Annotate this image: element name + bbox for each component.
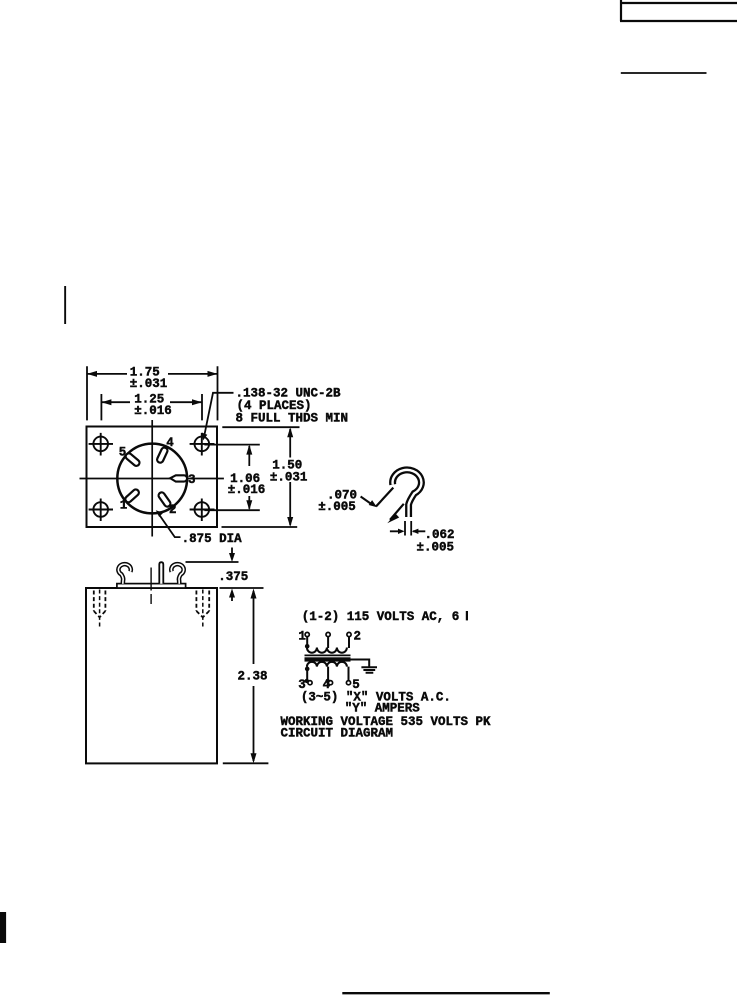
svg-text:.375: .375 bbox=[218, 570, 248, 584]
svg-text:±.005: ±.005 bbox=[417, 540, 455, 554]
dim 1.75 witness lines bbox=[87, 366, 218, 420]
dim .062 arrows bbox=[390, 530, 425, 532]
dim 1.50 extension lines bbox=[222, 427, 300, 527]
transformer bottom terminal 5 bbox=[346, 681, 350, 685]
side view body bbox=[86, 588, 217, 763]
flange center horizontal line bbox=[80, 478, 224, 480]
core bar bbox=[305, 657, 351, 661]
leader .070 bbox=[361, 497, 372, 505]
svg-text:±.031: ±.031 bbox=[270, 470, 308, 484]
dim 2.38 line bbox=[253, 591, 255, 761]
junction dot pin4 bottom bbox=[326, 679, 330, 683]
ground tap wire bbox=[349, 660, 370, 667]
transformer top terminal 1 bbox=[305, 632, 309, 636]
secondary leads bbox=[307, 667, 348, 681]
hidden hole left bbox=[94, 590, 106, 627]
ground symbol bbox=[361, 667, 377, 672]
dim 1.06 line bbox=[248, 446, 250, 509]
hook detail wire bbox=[393, 470, 422, 517]
core line bbox=[305, 654, 351, 656]
flange outline bbox=[87, 427, 218, 528]
svg-text:±.016: ±.016 bbox=[228, 483, 266, 497]
svg-text:±.005: ±.005 bbox=[318, 500, 356, 514]
hole top-right bbox=[190, 433, 215, 456]
hole bottom-right bbox=[190, 499, 215, 522]
svg-text:2: 2 bbox=[169, 503, 177, 517]
dim .375 lower arrow bbox=[231, 592, 233, 601]
clipped character after 6 bbox=[466, 611, 468, 620]
dim 1.75 line bbox=[87, 373, 218, 375]
flange center vertical line bbox=[151, 420, 153, 537]
dim 1.25 witness lines bbox=[101, 394, 202, 420]
table frame fragment top right bbox=[620, 0, 737, 21]
secondary winding bbox=[307, 662, 347, 667]
junction dot pin3 lead bbox=[305, 667, 310, 672]
keyway slot 3 bbox=[170, 475, 187, 481]
transformer top terminal ct bbox=[326, 632, 330, 636]
dim .062 extension lines bbox=[405, 521, 411, 536]
leader .138-32 bbox=[204, 393, 234, 437]
keyway slot 1 bbox=[124, 488, 140, 503]
solid tab bottom left margin bbox=[0, 912, 6, 943]
junction dot pin3 bottom bbox=[305, 679, 309, 683]
svg-text:CIRCUIT DIAGRAM: CIRCUIT DIAGRAM bbox=[281, 726, 394, 740]
svg-text:4: 4 bbox=[166, 436, 174, 450]
svg-text:(1-2) 115 VOLTS AC, 6: (1-2) 115 VOLTS AC, 6 bbox=[302, 610, 460, 624]
dim .375 top extension bbox=[186, 561, 239, 563]
transformer bottom terminal 4 bbox=[328, 681, 332, 685]
header rule top right bbox=[621, 72, 707, 74]
hole bottom-left bbox=[89, 499, 113, 522]
svg-text:±.031: ±.031 bbox=[130, 377, 168, 391]
transformer top terminal 2 bbox=[347, 632, 351, 636]
dim 1.06 extension lines bbox=[204, 445, 259, 511]
hook lower tail with arrow bbox=[390, 504, 404, 520]
change bar left margin bbox=[64, 286, 66, 324]
side view left hook bbox=[118, 564, 130, 584]
side view mounting plate bbox=[117, 584, 186, 588]
svg-text:±.016: ±.016 bbox=[134, 404, 172, 418]
junction dot pin1 lead bbox=[305, 644, 310, 649]
transformer bottom terminal 3 bbox=[308, 681, 312, 685]
dim 2.38 bottom extension bbox=[223, 762, 269, 764]
keyway slot 4 bbox=[156, 447, 168, 464]
hook tail line bbox=[376, 488, 393, 507]
svg-text:2: 2 bbox=[354, 630, 362, 644]
primary winding bbox=[307, 648, 347, 653]
svg-text:3: 3 bbox=[188, 473, 196, 487]
dim 1.25 line bbox=[101, 401, 202, 403]
primary leads bbox=[307, 637, 349, 648]
leader .875 DIA bbox=[158, 513, 181, 537]
connector circle bbox=[117, 444, 187, 514]
svg-text:.875 DIA: .875 DIA bbox=[182, 532, 243, 546]
svg-text:"Y" AMPERS: "Y" AMPERS bbox=[345, 702, 421, 716]
svg-text:5: 5 bbox=[119, 445, 127, 459]
svg-text:2.38: 2.38 bbox=[238, 670, 268, 684]
dim .375 upper arrow bbox=[231, 548, 233, 559]
dim 1.50 line bbox=[289, 429, 291, 525]
hole top-left bbox=[89, 433, 113, 456]
side view center lug bbox=[159, 562, 163, 584]
keyway slot 2 bbox=[157, 491, 171, 508]
footer rule bbox=[342, 992, 550, 994]
hidden hole right bbox=[196, 590, 209, 627]
side view center line bbox=[150, 568, 152, 605]
dim .375 lower extension bbox=[220, 587, 264, 589]
svg-text:1: 1 bbox=[120, 499, 128, 513]
svg-text:1: 1 bbox=[298, 630, 306, 644]
svg-text:8 FULL THDS MIN: 8 FULL THDS MIN bbox=[236, 411, 349, 425]
keyway slot 5 bbox=[124, 452, 140, 467]
side view right hook bbox=[171, 564, 183, 584]
